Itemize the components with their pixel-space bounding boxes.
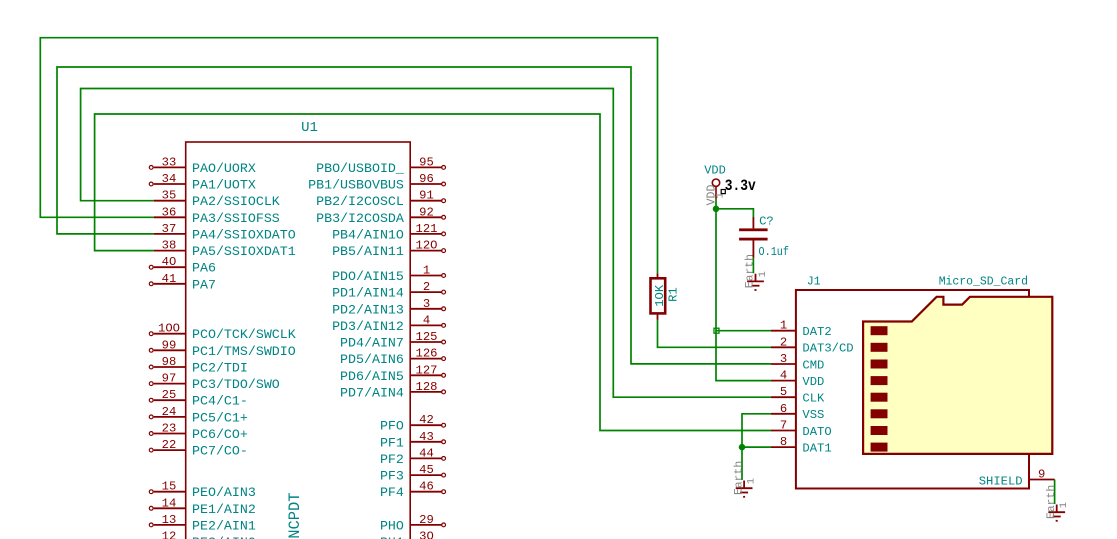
wire R1 to J1 DAT3/CD (658, 320, 772, 347)
svg-text:CLK: CLK (802, 392, 825, 406)
svg-text:PD5/AIN6: PD5/AIN6 (340, 352, 404, 367)
J1 pin 9 SHIELD (979, 468, 1055, 489)
svg-text:7: 7 (780, 419, 787, 433)
svg-text:PA6: PA6 (192, 261, 216, 276)
svg-text:2: 2 (423, 280, 430, 294)
svg-text:1: 1 (1058, 502, 1070, 508)
wire to J1 DAT2 (dangling end) (717, 330, 772, 332)
U1 pin 12 PE3/AIN0 (149, 530, 256, 539)
U1 pin 36 PA3/SSI0FSS (154, 205, 280, 226)
wire DAT1 to ground net (742, 446, 771, 448)
svg-text:24: 24 (162, 405, 177, 419)
U1 pin 42 PF0 (380, 413, 446, 434)
svg-text:PD7/AIN4: PD7/AIN4 (340, 385, 404, 400)
svg-text:PB4/AIN1O: PB4/AIN1O (332, 227, 404, 242)
svg-text:U1: U1 (301, 120, 318, 136)
svg-text:PA1/UOTX: PA1/UOTX (192, 178, 256, 193)
svg-text:33: 33 (162, 155, 177, 169)
svg-text:PA2/SSIOCLK: PA2/SSIOCLK (192, 194, 280, 209)
svg-text:22: 22 (162, 438, 177, 452)
J1 pin 2 DAT3/CD (771, 335, 854, 355)
resistor R1 10K (651, 273, 681, 320)
svg-text:2: 2 (780, 335, 787, 349)
svg-text:35: 35 (162, 189, 177, 203)
U1 pin 1 PD0/AIN15 (332, 264, 445, 285)
svg-text:PB1/USBOVBUS: PB1/USBOVBUS (308, 178, 404, 193)
svg-text:13: 13 (162, 513, 177, 527)
wire VDD to J1 VDD pin (716, 209, 771, 381)
J1 pin 5 CLK (771, 385, 825, 405)
svg-text:PE1/AIN2: PE1/AIN2 (192, 502, 256, 517)
svg-text:43: 43 (419, 430, 434, 444)
svg-text:42: 42 (419, 413, 434, 427)
svg-text:12: 12 (162, 530, 177, 539)
U1 pin 37 PA4/SSI0XDAT0 (154, 222, 296, 243)
svg-text:127: 127 (416, 363, 438, 377)
U1 pin 34 PA1/U0TX (149, 172, 256, 193)
U1 pin 44 PF2 (380, 446, 446, 467)
svg-text:121: 121 (416, 222, 438, 236)
node label 3.3v (721, 177, 756, 195)
svg-text:12O: 12O (416, 239, 438, 253)
svg-text:3O: 3O (419, 530, 434, 539)
wire VDD stem (715, 199, 717, 209)
svg-text:4: 4 (423, 313, 430, 327)
U1 pin 3 PD2/AIN13 (332, 297, 445, 318)
junction VDD node (713, 206, 719, 212)
svg-text:36: 36 (162, 205, 177, 219)
svg-text:1OK: 1OK (653, 284, 667, 307)
svg-text:1: 1 (780, 319, 787, 333)
ground earth below VSS/DAT1 (733, 461, 757, 497)
svg-text:23: 23 (162, 422, 177, 436)
svg-text:97: 97 (162, 372, 177, 386)
svg-text:O.1uf: O.1uf (759, 245, 790, 259)
svg-text:PC2/TDI: PC2/TDI (192, 361, 248, 376)
svg-text:4O: 4O (162, 255, 177, 269)
svg-text:29: 29 (419, 513, 434, 527)
svg-text:95: 95 (419, 155, 434, 169)
svg-text:PD4/AIN7: PD4/AIN7 (340, 336, 404, 351)
svg-text:14: 14 (162, 496, 177, 510)
J1 pin 6 VSS (771, 402, 824, 422)
U1 pin 33 PA0/U0RX (149, 155, 256, 176)
junction VSS/DAT1 node (739, 444, 745, 450)
node dangling wire-end square DAT2 (714, 328, 719, 333)
U1 pin 14 PE1/AIN2 (149, 496, 256, 517)
U1 pin 120 PB5/AIN11 (332, 239, 445, 260)
svg-text:PF4: PF4 (380, 485, 404, 500)
svg-text:PC3/TDO/SWO: PC3/TDO/SWO (192, 377, 280, 392)
svg-text:PA5/SSIOXDAT1: PA5/SSIOXDAT1 (192, 244, 296, 259)
svg-text:CMD: CMD (802, 358, 824, 372)
svg-text:PC1/TMS/SWDIO: PC1/TMS/SWDIO (192, 344, 296, 359)
svg-text:1: 1 (757, 271, 769, 277)
svg-text:DAT1: DAT1 (802, 442, 831, 456)
svg-text:PHO: PHO (380, 518, 404, 533)
svg-text:PBO/USBOID_: PBO/USBOID_ (316, 161, 404, 176)
wire VSS to ground (742, 414, 771, 480)
svg-text:PE2/AIN1: PE2/AIN1 (192, 518, 256, 533)
svg-text:VSS: VSS (802, 408, 824, 422)
U1 pin 96 PB1/USB0VBUS (308, 172, 445, 193)
svg-text:Micro_SD_Card: Micro_SD_Card (939, 275, 1028, 288)
U1 pin 98 PC2/TDI (149, 355, 248, 376)
wire PA3/SSI0FSS to R1 (40, 38, 657, 274)
svg-text:3.3v: 3.3v (725, 177, 756, 195)
svg-text:34: 34 (162, 172, 177, 186)
J1 SD-card graphic (863, 297, 1052, 454)
U1 pin 45 PF3 (380, 463, 446, 484)
U1 pin 35 PA2/SSI0CLK (154, 189, 280, 210)
svg-text:8: 8 (780, 435, 787, 449)
svg-text:92: 92 (419, 205, 434, 219)
svg-text:TM4C1294NCPDT: TM4C1294NCPDT (286, 493, 304, 539)
J1 pin 7 DAT0 (771, 419, 832, 439)
power VDD symbol (704, 164, 726, 206)
svg-text:PA7: PA7 (192, 277, 216, 292)
U1 pin 92 PB3/I2C0SDA (316, 205, 445, 226)
svg-text:PD1/AIN14: PD1/AIN14 (332, 286, 404, 301)
U1 pin 121 PB4/AIN10 (332, 222, 445, 243)
U1 pin 46 PF4 (380, 480, 446, 501)
svg-text:SHIELD: SHIELD (979, 474, 1023, 488)
J1 pin 4 VDD (771, 369, 824, 389)
svg-text:126: 126 (416, 347, 438, 361)
svg-text:PB5/AIN11: PB5/AIN11 (332, 244, 404, 259)
U1 pin 40 PA6 (149, 255, 216, 276)
svg-text:PCO/TCK/SWCLK: PCO/TCK/SWCLK (192, 327, 296, 342)
svg-text:C?: C? (759, 215, 774, 229)
svg-text:PA3/SSIOFSS: PA3/SSIOFSS (192, 211, 280, 226)
wire PA2/SSI0CLK to CLK (81, 89, 771, 398)
svg-text:PD2/AIN13: PD2/AIN13 (332, 302, 404, 317)
U1 pin 127 PD6/AIN5 (340, 363, 445, 384)
svg-text:5: 5 (780, 385, 787, 399)
svg-text:DAT2: DAT2 (802, 325, 831, 339)
svg-text:PDO/AIN15: PDO/AIN15 (332, 269, 404, 284)
U1 pin 13 PE2/AIN1 (149, 513, 256, 534)
svg-text:Earth: Earth (745, 254, 757, 288)
wire VDD to C? (716, 209, 753, 217)
svg-text:PAO/UORX: PAO/UORX (192, 161, 256, 176)
U1 pin 43 PF1 (380, 430, 446, 451)
svg-text:PF2: PF2 (380, 452, 404, 467)
U1 pin 24 PC5/C1+ (149, 405, 248, 426)
svg-text:1: 1 (423, 264, 430, 278)
svg-text:PC7/CO-: PC7/CO- (192, 444, 248, 459)
svg-text:Earth: Earth (1046, 485, 1058, 519)
J1 pin 3 CMD (771, 352, 824, 372)
U1 pin 2 PD1/AIN14 (332, 280, 445, 301)
ground earth below C? (745, 254, 769, 290)
svg-text:9: 9 (1038, 468, 1045, 482)
IC U1 microcontroller TM4C1294NCPDT body (186, 142, 411, 539)
connector J1 Micro_SD_Card body (796, 290, 1029, 489)
svg-text:PC6/CO+: PC6/CO+ (192, 427, 248, 442)
U1 pin 22 PC7/C0- (149, 438, 248, 459)
svg-text:3: 3 (423, 297, 430, 311)
U1 pin 100 PC0/TCK/SWCLK (149, 322, 295, 343)
U1 pin 128 PD7/AIN4 (340, 380, 445, 401)
svg-text:VDD: VDD (704, 164, 726, 178)
svg-text:4: 4 (780, 369, 787, 383)
svg-text:J1: J1 (807, 275, 821, 288)
wire SHIELD to ground (1054, 480, 1056, 505)
svg-text:PF3: PF3 (380, 469, 404, 484)
U1 pin 91 PB2/I2C0SCL (316, 189, 445, 210)
svg-text:25: 25 (162, 388, 177, 402)
svg-text:PH1: PH1 (380, 535, 404, 539)
svg-text:PB2/I2COSCL: PB2/I2COSCL (316, 194, 404, 209)
svg-text:45: 45 (419, 463, 434, 477)
svg-text:6: 6 (780, 402, 787, 416)
svg-text:3: 3 (780, 352, 787, 366)
svg-text:PC5/C1+: PC5/C1+ (192, 410, 248, 425)
ground earth below SHIELD (1046, 485, 1070, 521)
svg-text:PEO/AIN3: PEO/AIN3 (192, 485, 256, 500)
U1 pin 4 PD3/AIN12 (332, 313, 445, 334)
svg-text:PD3/AIN12: PD3/AIN12 (332, 319, 404, 334)
svg-text:PC4/C1-: PC4/C1- (192, 394, 248, 409)
U1 pin 41 PA7 (149, 272, 216, 293)
svg-text:PF1: PF1 (380, 435, 404, 450)
svg-text:PFO: PFO (380, 419, 404, 434)
U1 pin 23 PC6/C0+ (149, 422, 248, 443)
U1 pin 15 PE0/AIN3 (149, 480, 256, 501)
svg-text:DAT3/CD: DAT3/CD (802, 342, 853, 356)
svg-text:96: 96 (419, 172, 434, 186)
svg-text:38: 38 (162, 239, 177, 253)
U1 pin 29 PH0 (380, 513, 446, 534)
U1 pin 97 PC3/TDO/SWO (149, 372, 279, 393)
svg-text:41: 41 (162, 272, 177, 286)
U1 pin 95 PB0/USB0ID_ (316, 155, 445, 176)
svg-text:PD6/AIN5: PD6/AIN5 (340, 369, 404, 384)
svg-text:PE3/AINO: PE3/AINO (192, 535, 256, 539)
svg-text:37: 37 (162, 222, 177, 236)
svg-text:91: 91 (419, 189, 434, 203)
svg-text:PA4/SSIOXDATO: PA4/SSIOXDATO (192, 227, 296, 242)
U1 pin 25 PC4/C1- (149, 388, 248, 409)
U1 pin 38 PA5/SSI0XDAT1 (154, 239, 296, 260)
svg-text:PB3/I2COSDA: PB3/I2COSDA (316, 211, 404, 226)
svg-text:15: 15 (162, 480, 177, 494)
svg-text:R1: R1 (667, 287, 681, 302)
U1 pin 126 PD5/AIN6 (340, 347, 445, 368)
svg-text:DATO: DATO (802, 425, 831, 439)
svg-text:125: 125 (416, 330, 438, 344)
wire PA4/SSI0XDAT0 to CMD (57, 67, 771, 364)
J1 pin 1 DAT2 (771, 319, 832, 339)
svg-text:99: 99 (162, 338, 177, 352)
U1 pin 125 PD4/AIN7 (340, 330, 445, 351)
svg-text:1: 1 (746, 478, 758, 484)
svg-text:VDD: VDD (802, 375, 824, 389)
U1 pin 30 PH1 (380, 530, 446, 539)
svg-text:1OO: 1OO (158, 322, 180, 336)
svg-text:Earth: Earth (733, 461, 745, 495)
wire PA5/SSI0XDAT1 to DAT0 (95, 114, 771, 431)
svg-text:98: 98 (162, 355, 177, 369)
U1 pin 99 PC1/TMS/SWDIO (149, 338, 295, 359)
svg-text:46: 46 (419, 480, 434, 494)
svg-text:128: 128 (416, 380, 438, 394)
capacitor C? 0.1uf (739, 215, 789, 260)
wire C? to ground (752, 258, 754, 274)
J1 pin 8 DAT1 (771, 435, 832, 455)
svg-text:44: 44 (419, 446, 434, 460)
